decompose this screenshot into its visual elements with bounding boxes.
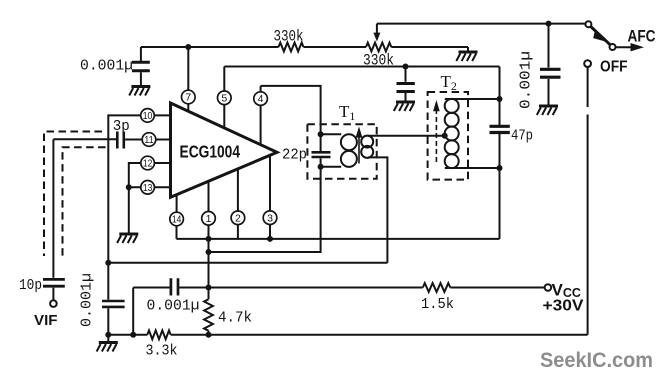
pin 13 [141,181,155,195]
wire (T2/47p vertical from rail2 down) [499,67,501,126]
capacitor C2 3p [117,132,124,149]
wire (22p bottom down, left to pin1 node, line B) [209,158,321,252]
node (47p bottom junction) [497,165,503,171]
wire (pin14 stub and drop) [176,195,178,239]
svg-text:13: 13 [143,183,153,194]
wire (pin12/13 common to ground) [129,163,141,234]
wire (bottom rail to OFF line corner) [171,334,588,336]
wire (rail C: AFC feedback, pin10 line to T1 secondary) [108,262,387,264]
svg-text:4.7k: 4.7k [218,310,252,327]
resistor R1 330k [279,43,304,52]
wire (VCC rail y=287.5) [179,287,422,289]
pin 1 [202,212,216,226]
svg-text:1.5k: 1.5k [421,296,454,313]
svg-text:ECG1004: ECG1004 [180,142,241,162]
wire (R2 wiper arrow) [376,24,378,33]
pin 12 [141,156,155,170]
pin 2 [231,211,245,225]
wire (T1 primary connections) [321,134,342,167]
wire (T1 tuning arrow) [358,132,360,164]
pin 11 [142,133,156,147]
wire (3p left to VIF line) [53,138,116,140]
capacitor C7 10p [43,279,65,286]
node (pin14-pin1 junction on line A) [206,236,212,242]
svg-text:2: 2 [235,212,241,224]
inductor T1 secondary winding [361,136,373,148]
ground (bottom left) [97,343,118,352]
node (rail2 / C5 junction) [403,64,409,70]
inductor T1 primary winding [341,134,357,150]
inductor T2 winding [445,99,459,113]
resistor R4 3.3k [147,330,170,339]
wire (T2 top to 47p line) [445,98,500,100]
svg-text:47p: 47p [511,128,533,145]
node (47p top junction) [497,96,503,102]
svg-text:10p: 10p [19,277,42,294]
wire (T2 tuning arrow, dashed) [435,111,437,162]
svg-text:AFC: AFC [628,28,656,46]
wire (R2 right to ground) [391,47,468,52]
svg-text:T2: T2 [441,72,457,93]
wire (pin13 stub) [141,186,171,188]
switch S1 AFC/OFF [585,21,644,51]
ground (under C6) [537,106,558,115]
shield (outer dashed) [44,132,102,257]
capacitor C6 0.001u (top right) [540,24,561,106]
wire (pin10 stub) [141,114,171,116]
pin 5 [218,91,232,105]
svg-text:22p: 22p [282,147,307,164]
ground (pins 12/13) [117,234,138,243]
node (corner to bottom rail) [130,332,136,338]
wire (1.5k to VCC terminal) [450,287,544,289]
svg-text:SeekIC.com: SeekIC.com [540,349,653,372]
wire (top AFC rail y=23.6 wiper to switch) [377,23,585,25]
node (rail C / pin10 line) [105,260,111,266]
node (pin3 junction on line A) [267,236,273,242]
wire (pin4 stub and riser) [260,86,262,145]
terminal VIF [50,300,57,307]
wire (4.7k to bottom rail) [208,331,210,335]
capacitor C1 0.001u (top left) [132,47,150,87]
op-amp U1 ECG1004 [171,103,278,197]
wire (bottom rail left of 3.3k) [108,334,147,336]
svg-text:0.001µ: 0.001µ [518,51,535,109]
svg-text:5: 5 [221,92,227,104]
node (pin10 line / bottom rail) [105,332,111,338]
wire (pin10 left and long drop) [108,115,141,299]
wire (R1 to R2) [304,46,367,48]
wire (line A: bottom pins bus to T2) [176,238,499,240]
svg-text:4: 4 [258,93,264,105]
svg-text:3p: 3p [113,118,130,135]
capacitor C4 47p [490,126,510,132]
node (pin7 junction) [185,44,191,50]
svg-text:+30V: +30V [543,298,584,315]
node (T2 tap) [442,133,448,139]
wire (pin11 to 3p) [125,139,142,141]
wire (C8 to bottom rail) [107,308,109,335]
pin 3 [263,211,277,225]
node (junction top rail / C6) [546,21,552,27]
resistor R5 4.7k [204,299,213,330]
node (pin1 junction on line B) [206,249,212,255]
svg-text:0.001µ: 0.001µ [147,298,200,315]
wire (pin11 stub) [142,139,170,141]
wire (stem to ground) [107,335,109,342]
wire (T1 secondary bottom, down to rail C) [368,157,387,262]
ground (under C1) [129,87,150,96]
wire (pin4 feed down into T1 / 22p line) [261,86,321,151]
transformer T2 (dashed can) [428,92,468,180]
terminal OFF [584,60,591,67]
shield (inner dashed) [63,147,106,256]
node (T1 primary top) [318,131,324,137]
wire (pin5 stub and riser) [223,67,225,128]
svg-text:10: 10 [143,111,153,122]
svg-text:1: 1 [206,213,212,225]
node (VCC rail / pin1 line) [206,285,212,291]
pin 14 [170,212,184,226]
svg-text:0.001µ: 0.001µ [79,273,96,327]
node (4.7k / bottom rail) [206,332,212,338]
wire (OFF line down right side, with scan gap) [587,67,589,107]
svg-text:0.001µ: 0.001µ [80,58,133,75]
svg-text:T1: T1 [339,102,355,123]
wire (rail2 y=66.5 pin5 to T2 top) [224,66,499,68]
wire (47p bottom down to line A) [499,134,501,239]
node (pin13 junction) [126,184,132,190]
svg-text:VIF: VIF [34,312,58,329]
resistor R2 330k (potentiometer) [366,43,391,52]
pin 4 [254,92,268,106]
ground (under C5) [394,102,415,111]
capacitor C8 0.001u (in pin10 line) [102,301,125,307]
svg-text:7: 7 [185,92,191,104]
wire (top rail y=47 from C1 to R1) [141,46,279,48]
ground (right of R2) [456,52,477,61]
wire (pin7 stub and riser) [187,47,189,111]
wire (VCC feed left corner) [133,288,169,335]
capacitor C3 22p (in T1) [312,152,331,157]
terminal VCC [545,284,552,291]
wire (pin12 stub) [141,162,171,164]
resistor R3 1.5k [423,283,451,292]
wire (T2 bottom to 47p line) [445,167,500,169]
svg-text:330k: 330k [274,28,304,46]
svg-text:3.3k: 3.3k [146,343,178,360]
svg-text:3: 3 [267,212,273,224]
svg-text:11: 11 [144,135,154,146]
wire (pin3 stub and drop) [269,155,271,239]
wire (pin1 stub and drop to 4.7k) [208,181,210,299]
svg-text:14: 14 [172,215,182,226]
svg-text:OFF: OFF [600,59,628,76]
pin 7 [182,90,196,104]
wire (10p to VIF terminal) [52,288,54,301]
transformer T1 (dashed can) [307,124,376,179]
node (T1 primary bottom) [318,164,324,170]
wire (pin2 stub and drop) [237,169,239,239]
wire (T1 secondary top to T2 tap) [368,135,445,137]
svg-text:12: 12 [143,159,153,170]
wire (VIF line down) [52,139,54,278]
capacitor C9 0.001u (series in VCC feed) [171,278,178,295]
capacitor C5 (decoupling at x=405) [397,67,415,102]
pin 10 [141,109,155,123]
